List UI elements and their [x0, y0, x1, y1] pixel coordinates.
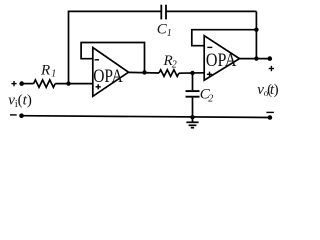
svg-text:vo(t): vo(t) — [257, 82, 278, 98]
svg-text:R: R — [40, 62, 50, 78]
svg-text:2: 2 — [172, 60, 177, 71]
svg-text:1: 1 — [167, 28, 172, 39]
svg-text:OPA: OPA — [93, 66, 123, 87]
svg-text:1: 1 — [51, 69, 56, 80]
svg-text:2: 2 — [208, 93, 213, 104]
svg-text:vi(t): vi(t) — [8, 93, 32, 110]
svg-text:OPA: OPA — [206, 50, 237, 71]
